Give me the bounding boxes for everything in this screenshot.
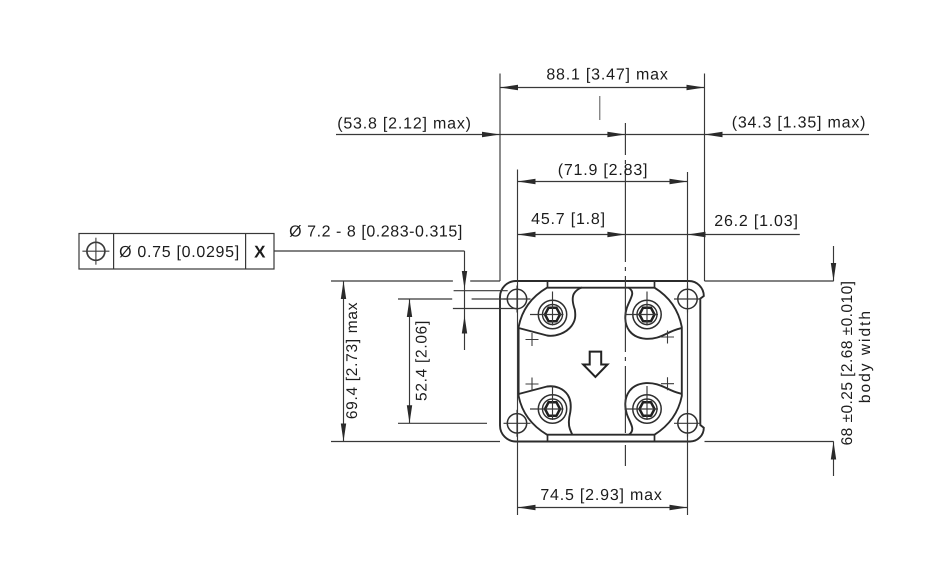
- svg-text:X: X: [254, 243, 266, 262]
- body edge tick top-right: [654, 281, 656, 288]
- svg-text:(34.3 [1.35] max): (34.3 [1.35] max): [732, 115, 867, 132]
- body outline: [519, 288, 682, 435]
- hole diameter leader: [274, 251, 517, 350]
- cross mark bottom-left: [526, 378, 539, 391]
- svg-text:69.4 [2.73] max: 69.4 [2.73] max: [344, 302, 361, 419]
- body centerline segment: [599, 96, 601, 120]
- svg-text:88.1 [3.47] max: 88.1 [3.47] max: [546, 67, 668, 84]
- corner hole top-right: [674, 286, 701, 313]
- lobe top-right: [625, 288, 682, 339]
- dimension 71.9 line: [518, 179, 688, 184]
- dimension 52.4 vertical: [398, 299, 507, 423]
- dimension 53.8 / 34.3 line: [336, 132, 869, 137]
- corner hole top-left: [504, 286, 531, 313]
- svg-text:Ø 0.75 [0.0295]: Ø 0.75 [0.0295]: [119, 244, 240, 261]
- body edge tick bottom-left: [547, 435, 549, 442]
- cross mark top-left: [526, 333, 539, 346]
- lobe bottom-right: [625, 383, 682, 435]
- dimension 88.1 line: [500, 85, 705, 90]
- svg-text:Ø 7.2 - 8 [0.283-0.315]: Ø 7.2 - 8 [0.283-0.315]: [289, 224, 463, 241]
- svg-text:body width: body width: [857, 309, 874, 403]
- svg-text:45.7 [1.8]: 45.7 [1.8]: [531, 211, 606, 228]
- extension line part right edge: [704, 74, 706, 282]
- dimension 68 body width: [705, 246, 837, 476]
- dimension 69.4 vertical: [331, 281, 500, 442]
- boss hole top-left: [530, 292, 567, 329]
- svg-text:68 ±0.25 [2.68 ±0.010]: 68 ±0.25 [2.68 ±0.010]: [839, 281, 856, 446]
- extension line right hole column: [687, 172, 689, 515]
- direction arrow symbol: [583, 352, 607, 377]
- lobe bottom-left: [519, 386, 573, 434]
- position symbol: [82, 238, 109, 265]
- corner hole bottom-left: [504, 410, 531, 437]
- dimension 45.7 / 26.2 line: [518, 232, 800, 237]
- flange outline: [500, 281, 704, 442]
- svg-text:52.4 [2.06]: 52.4 [2.06]: [414, 320, 431, 401]
- svg-text:74.5 [2.93] max: 74.5 [2.93] max: [540, 487, 662, 504]
- boss hole top-right: [625, 292, 662, 329]
- cross mark bottom-right: [661, 377, 674, 390]
- boss hole bottom-right: [625, 386, 662, 423]
- svg-text:(71.9 [2.83]: (71.9 [2.83]: [558, 162, 649, 179]
- dimension 74.5 line: [518, 505, 688, 510]
- svg-text:(53.8 [2.12] max): (53.8 [2.12] max): [337, 116, 472, 133]
- feature control frame: [79, 234, 274, 270]
- corner hole bottom-right: [674, 410, 701, 437]
- body edge tick bottom-right: [654, 435, 656, 442]
- lobe top-left: [519, 288, 582, 336]
- extension line part left edge: [499, 74, 501, 282]
- cross mark top-right: [661, 331, 674, 344]
- shaft centerline (dash-dot): [624, 123, 626, 466]
- boss hole bottom-left: [530, 386, 567, 423]
- extension line left hole column: [517, 170, 519, 516]
- svg-text:26.2 [1.03]: 26.2 [1.03]: [714, 213, 798, 230]
- body edge tick top-left: [547, 281, 549, 288]
